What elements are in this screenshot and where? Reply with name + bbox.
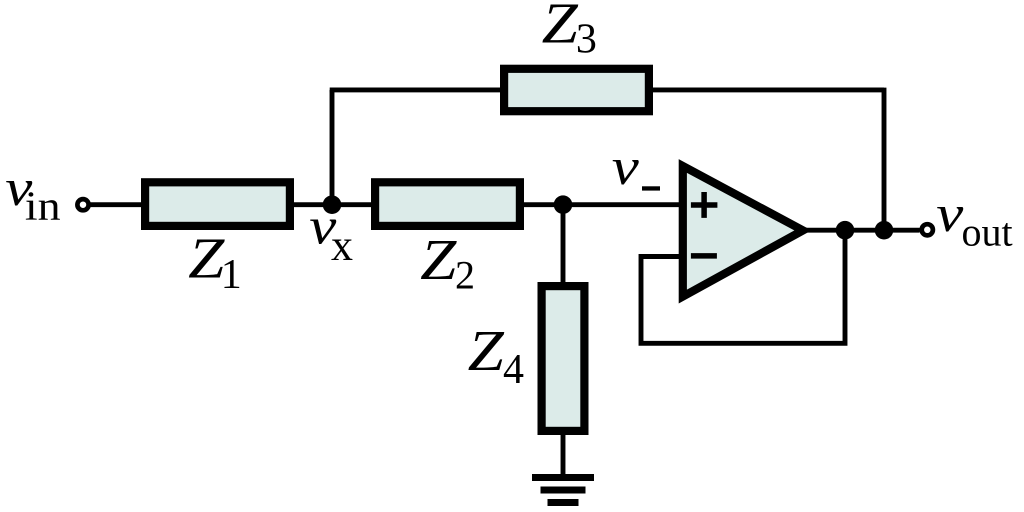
op-amp U1 body — [683, 166, 803, 297]
terminal vout — [922, 224, 933, 235]
wire vx riser — [330, 90, 335, 207]
wire Z4 to ground — [561, 433, 566, 478]
wire op-amp output — [806, 228, 920, 233]
svg-text:Z: Z — [542, 0, 579, 56]
node vx — [323, 195, 342, 214]
wire Z2 to op-amp — [522, 202, 680, 207]
svg-text:3: 3 — [576, 16, 597, 62]
wire right riser down to output — [882, 88, 887, 231]
svg-text:1: 1 — [221, 252, 242, 298]
wire feedback loop — [641, 230, 845, 343]
svg-text:v: v — [612, 139, 640, 196]
wire node to Z4 — [561, 205, 566, 284]
svg-text:Z: Z — [468, 319, 505, 383]
svg-text:v: v — [936, 186, 964, 243]
impedance Z4 — [542, 286, 585, 431]
svg-text:2: 2 — [455, 253, 475, 298]
terminal vin — [77, 199, 88, 210]
wire vin to Z1 — [90, 202, 143, 207]
impedance Z1 — [145, 182, 290, 226]
wire Z1 to Z2 — [292, 202, 373, 207]
wire top left vx to Z3 — [330, 87, 502, 92]
impedance Z3 — [504, 69, 649, 111]
svg-text:out: out — [962, 210, 1013, 255]
svg-text:in: in — [25, 184, 61, 229]
svg-text:Z: Z — [188, 227, 225, 291]
node output junction 1 (feedback) — [836, 221, 855, 240]
op-amp plus input marker — [691, 192, 718, 218]
wire top right Z3 to right riser — [651, 87, 884, 92]
node v- junction after Z2 — [554, 195, 573, 214]
svg-text:4: 4 — [503, 347, 524, 393]
svg-text:x: x — [331, 221, 353, 270]
ground — [532, 478, 594, 503]
svg-text:Z: Z — [420, 228, 457, 292]
op-amp minus input marker — [691, 253, 717, 259]
node output junction 2 (from Z3) — [875, 221, 894, 240]
impedance Z2 — [375, 182, 520, 226]
